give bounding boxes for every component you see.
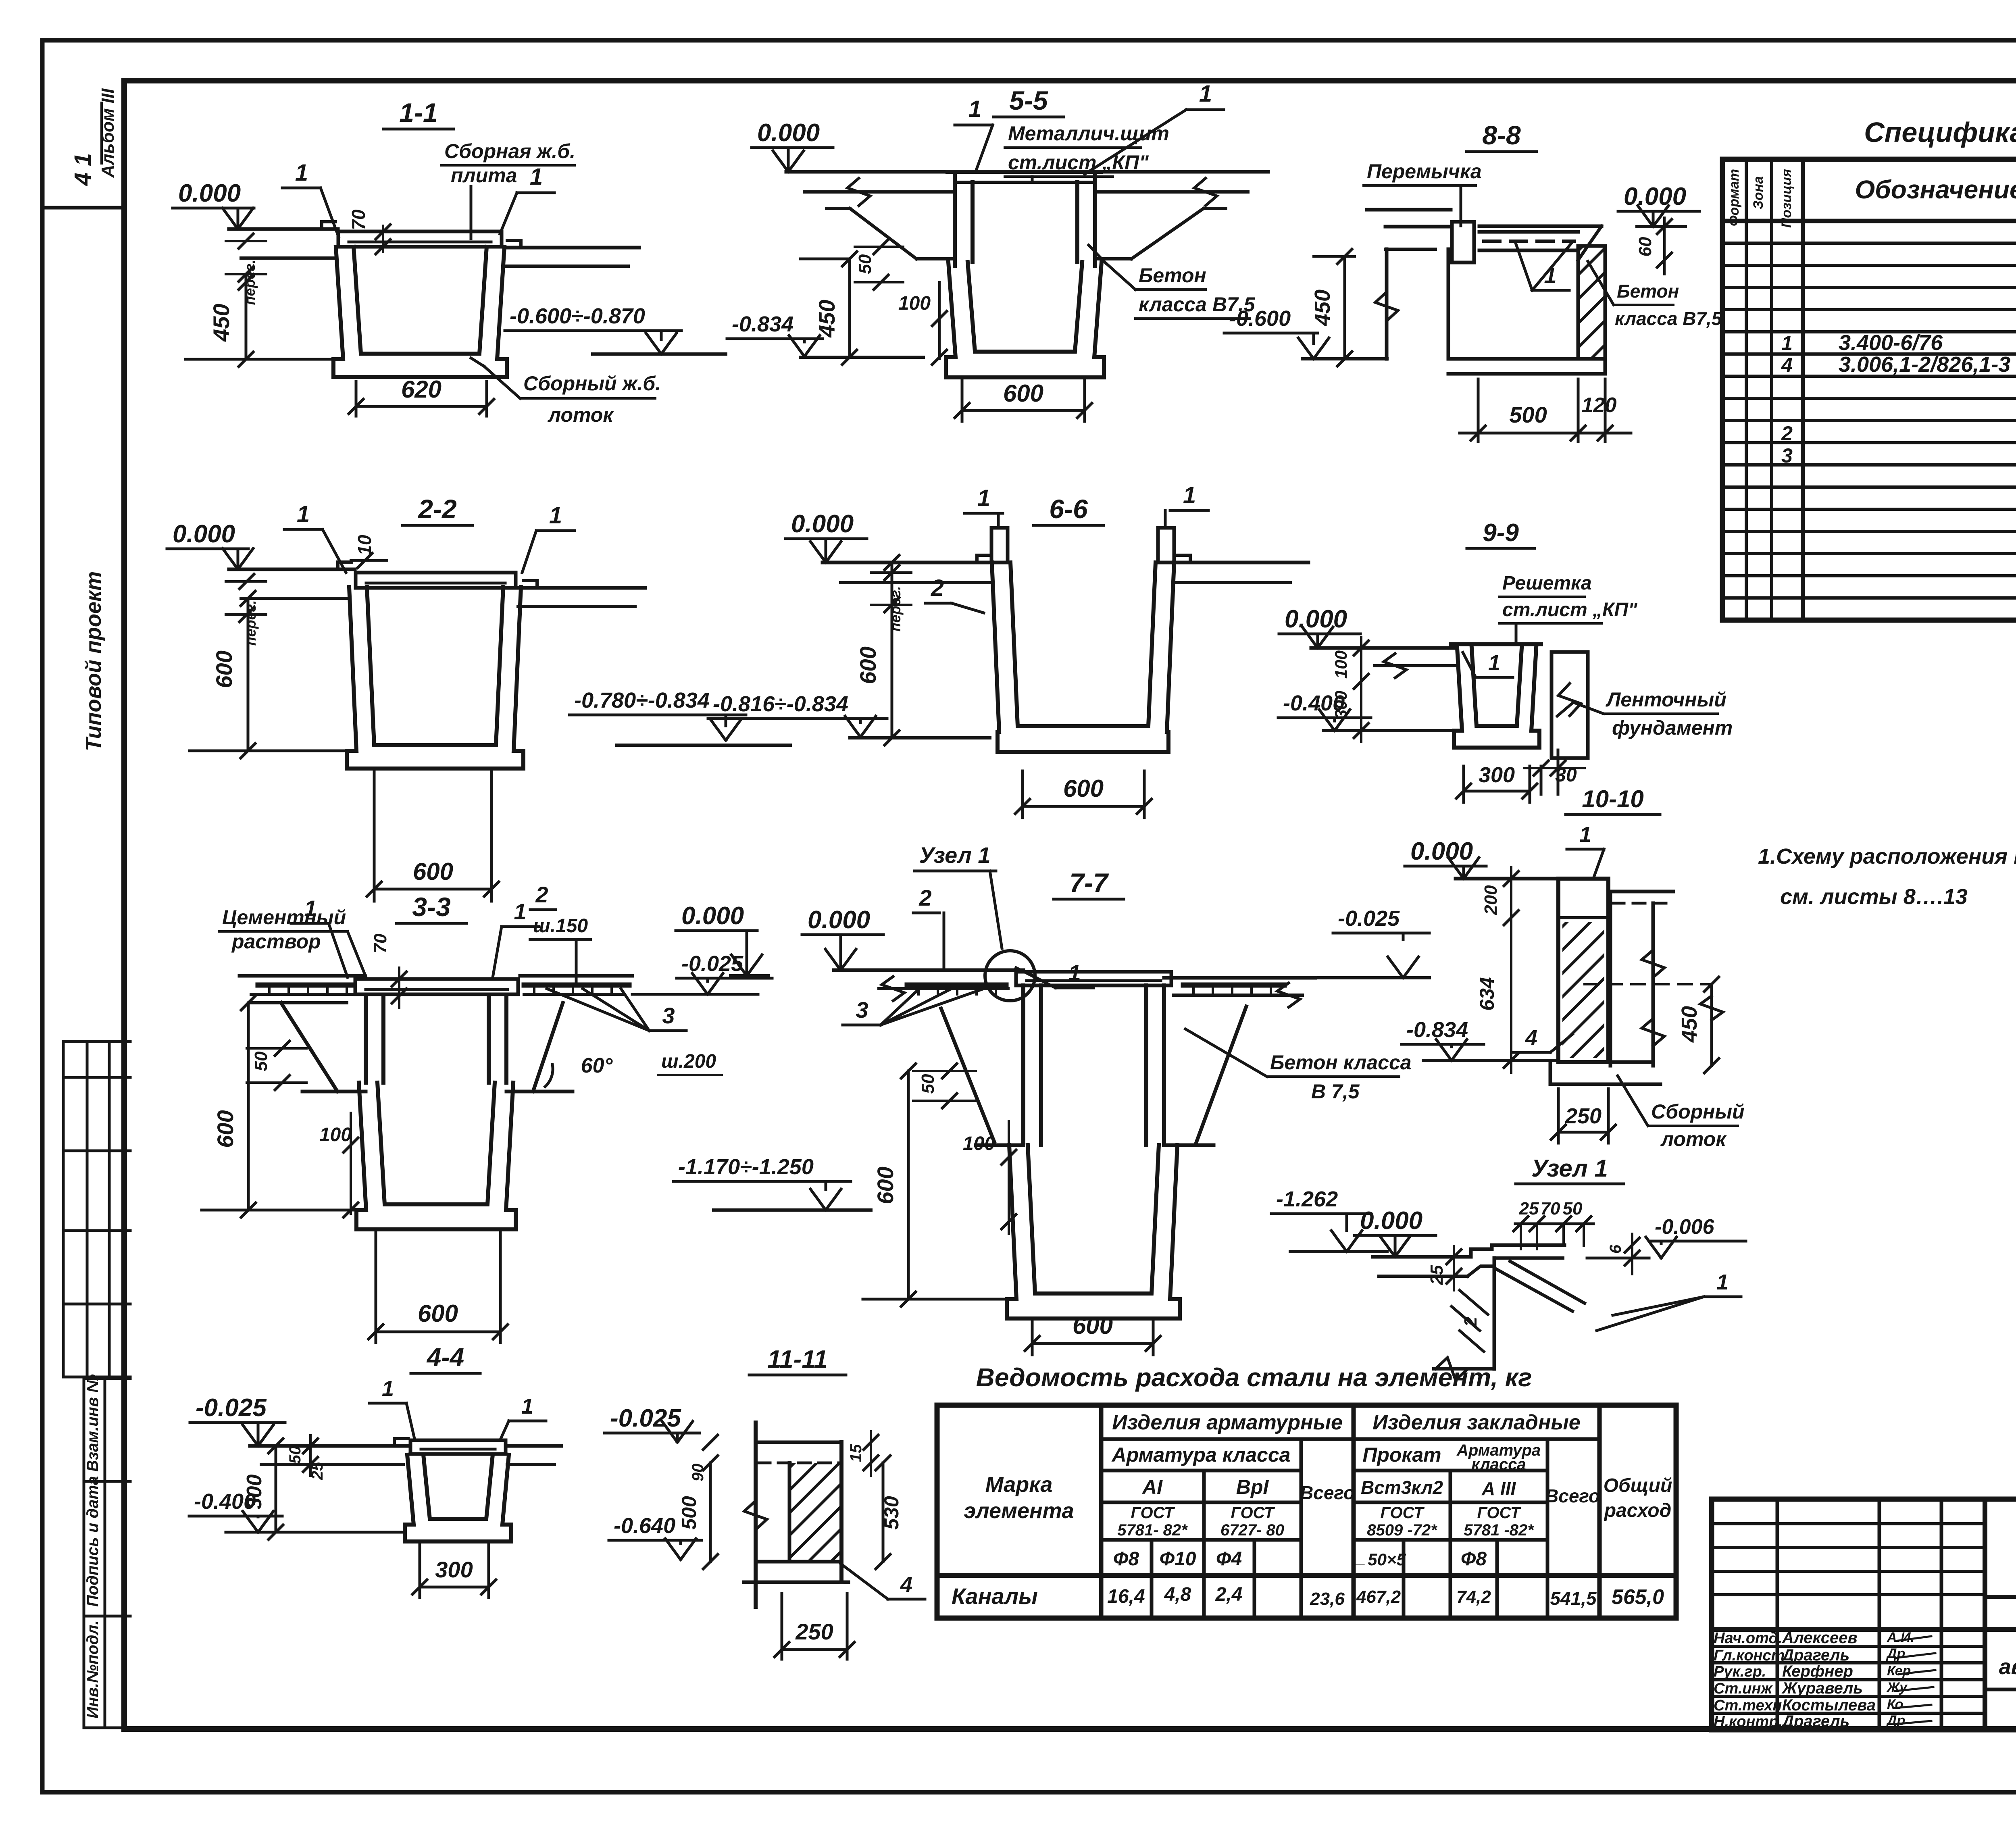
svg-text:Ст.инж: Ст.инж: [1714, 1680, 1773, 1697]
section 2-2 dim 600 vertical: [190, 750, 348, 752]
section 3-3 cover slab: [355, 979, 518, 994]
section 11-11 wall outline: [754, 1423, 758, 1607]
svg-text:Позиция: Позиция: [1779, 169, 1794, 228]
section 1-1 dim 620: [355, 381, 358, 416]
svg-text:Керфнер: Керфнер: [1782, 1662, 1853, 1680]
section 5-5 dim 450: [848, 259, 851, 357]
svg-text:6727- 80: 6727- 80: [1220, 1521, 1284, 1539]
section 8-8 grate slab dashed: [1479, 225, 1602, 228]
svg-text:-1.262: -1.262: [1276, 1187, 1338, 1211]
section 5-5 excavation slope left: [827, 207, 850, 210]
svg-text:-0.780÷-0.834: -0.780÷-0.834: [574, 688, 710, 712]
svg-text:2: 2: [1461, 1316, 1481, 1327]
section 7-7 embedded plate left: [907, 983, 1006, 988]
узел 1 cover slab edge: [1471, 1245, 1564, 1257]
svg-text:Формат: Формат: [1727, 169, 1742, 226]
svg-text:-0.025: -0.025: [681, 952, 744, 976]
svg-text:600: 600: [413, 858, 453, 885]
section 3-3 dim 600 bottom: [375, 1232, 377, 1343]
svg-text:5781- 82*: 5781- 82*: [1117, 1521, 1188, 1539]
svg-text:100: 100: [898, 293, 931, 314]
svg-text:Ф10: Ф10: [1160, 1548, 1196, 1570]
svg-text:Алексеев: Алексеев: [1782, 1629, 1858, 1647]
svg-text:Узел 1: Узел 1: [919, 842, 991, 868]
svg-text:300: 300: [1479, 763, 1515, 787]
section 7-7 cover slab: [1016, 972, 1171, 985]
section 4-4 trough: [405, 1455, 511, 1541]
section 7-7 floor slab left: [834, 969, 1023, 972]
section 2-2 dim 600 bottom: [373, 771, 376, 901]
svg-text:3: 3: [1781, 444, 1793, 467]
section 5-5 leader from label to shield: [1031, 177, 1034, 182]
svg-text:ГОСТ: ГОСТ: [1381, 1504, 1425, 1522]
svg-text:Взам.инв №: Взам.инв №: [84, 1374, 102, 1472]
svg-text:Подпись и дата: Подпись и дата: [84, 1476, 102, 1607]
section 11-11 dim 500 90: [709, 1463, 712, 1562]
section 11-11 hatched core: [788, 1463, 791, 1562]
section 5-5 trough: [946, 262, 1104, 377]
section 6-6 floor line left: [823, 561, 992, 564]
svg-text:2-2: 2-2: [417, 494, 457, 524]
svg-text:9-9: 9-9: [1483, 519, 1519, 547]
svg-text:0.000: 0.000: [791, 510, 854, 538]
svg-text:-0.600÷-0.870: -0.600÷-0.870: [510, 304, 645, 328]
svg-text:ГОСТ: ГОСТ: [1231, 1504, 1276, 1522]
svg-text:-0.600: -0.600: [1229, 306, 1291, 331]
title block designation row line: [1985, 1595, 2016, 1599]
svg-text:450: 450: [814, 300, 839, 337]
svg-text:1: 1: [549, 502, 562, 529]
svg-text:50: 50: [1563, 1199, 1583, 1219]
svg-text:8509 -72*: 8509 -72*: [1367, 1521, 1438, 1539]
svg-text:450: 450: [208, 304, 234, 342]
svg-text:70: 70: [371, 933, 390, 953]
left margin cell Инв.№ подл.: [84, 1727, 130, 1729]
svg-text:Ф4: Ф4: [1216, 1548, 1242, 1570]
узел 1 seat hatch: [1460, 1290, 1488, 1314]
svg-text:ТП. 405-7- 4.86: ТП. 405-7- 4.86: [2014, 1541, 2016, 1579]
svg-text:Ст.техн: Ст.техн: [1714, 1697, 1782, 1714]
title block frame: [1712, 1499, 2016, 1730]
steel table grid: [937, 1405, 1676, 1618]
section 6-6 dim 600 vertical: [891, 562, 893, 738]
section 4-4 floor line left: [250, 1444, 408, 1448]
svg-text:плита: плита: [451, 164, 517, 187]
svg-text:2: 2: [918, 885, 931, 910]
section 5-5 floor line right: [1095, 170, 1268, 174]
svg-text:600: 600: [855, 646, 881, 684]
section 4-4 floor line right: [507, 1444, 561, 1448]
svg-text:4 1: 4 1: [70, 153, 96, 186]
svg-text:Вст3кл2: Вст3кл2: [1361, 1477, 1443, 1498]
svg-text:60: 60: [1635, 237, 1655, 256]
svg-text:класса: класса: [1471, 1456, 1526, 1473]
section 1-1 dim 450: [185, 358, 333, 361]
section 2-2 trough: [347, 587, 523, 769]
left margin grid table: [63, 1040, 130, 1043]
section 5-5 floor line left: [786, 170, 955, 174]
svg-text:ш.200: ш.200: [661, 1051, 716, 1072]
svg-text:-0.834: -0.834: [732, 312, 793, 336]
svg-text:1: 1: [968, 96, 981, 122]
svg-text:Костылева: Костылева: [1782, 1696, 1876, 1714]
svg-text:Нач.отд.: Нач.отд.: [1714, 1630, 1782, 1647]
svg-text:541,5: 541,5: [1550, 1588, 1597, 1609]
svg-text:2,4: 2,4: [1215, 1584, 1243, 1605]
svg-text:Типовой проект: Типовой проект: [81, 571, 106, 752]
section 1-1 trough: [333, 247, 507, 377]
section 8-8 wall hatched: [1578, 246, 1605, 359]
svg-text:0.000: 0.000: [1410, 837, 1473, 865]
svg-text:50: 50: [918, 1074, 938, 1094]
svg-text:1: 1: [1199, 81, 1212, 107]
svg-text:-0.400: -0.400: [1283, 691, 1345, 715]
section 5-5 wall left: [953, 172, 957, 266]
svg-text:0.000: 0.000: [173, 520, 235, 548]
svg-text:600: 600: [418, 1300, 458, 1327]
svg-text:-0.025: -0.025: [610, 1404, 681, 1432]
svg-text:Бетон: Бетон: [1617, 281, 1679, 302]
svg-text:Бетон класса: Бетон класса: [1270, 1051, 1412, 1074]
section 2-2 floor line left: [229, 568, 355, 571]
svg-text:ГОСТ: ГОСТ: [1131, 1504, 1176, 1522]
svg-text:Арматура класса: Арматура класса: [1111, 1443, 1291, 1466]
svg-text:15: 15: [847, 1444, 865, 1462]
svg-text:-0.816÷-0.834: -0.816÷-0.834: [713, 692, 848, 716]
section 7-7 dim 600 bottom: [1031, 1322, 1034, 1355]
svg-text:Сборная ж.б.: Сборная ж.б.: [444, 140, 575, 162]
section 6-6 dim 600 bottom: [1021, 771, 1024, 818]
svg-text:565,0: 565,0: [1612, 1585, 1664, 1609]
svg-text:Сборный: Сборный: [1651, 1100, 1745, 1123]
section 7-7 channel walls: [1021, 985, 1025, 1145]
svg-text:1: 1: [1716, 1270, 1729, 1294]
svg-text:А III: А III: [1481, 1478, 1516, 1499]
svg-text:1: 1: [1579, 823, 1591, 847]
svg-text:1: 1: [297, 501, 310, 527]
svg-text:Сборный ж.б.: Сборный ж.б.: [523, 372, 661, 395]
svg-text:Ведомость расхода стали на эле: Ведомость расхода стали на элемент, кг: [976, 1363, 1532, 1392]
svg-text:1: 1: [295, 160, 308, 186]
svg-text:лоток: лоток: [548, 404, 614, 426]
svg-text:100: 100: [319, 1124, 352, 1146]
svg-text:Зона: Зона: [1751, 176, 1766, 209]
svg-text:Прокат: Прокат: [1362, 1443, 1441, 1466]
svg-text:600: 600: [212, 1110, 238, 1148]
spec table grid: [1722, 159, 2016, 620]
svg-text:1: 1: [1781, 332, 1793, 354]
svg-text:300: 300: [435, 1557, 473, 1582]
svg-text:0.000: 0.000: [757, 119, 820, 147]
section 7-7 excavation slope left: [941, 1008, 994, 1142]
svg-text:1: 1: [530, 164, 543, 190]
section 9-9 dim 300 bottom: [1462, 766, 1465, 802]
svg-text:3: 3: [856, 997, 868, 1023]
section 10-10 bottom slab: [1558, 1060, 1653, 1064]
svg-text:600: 600: [1063, 775, 1104, 802]
section 3-3 embedded plate right: [524, 983, 629, 988]
section 1-1 floor line right: [504, 246, 639, 250]
svg-text:Каналы: Каналы: [952, 1583, 1038, 1609]
svg-text:25: 25: [308, 1462, 326, 1480]
section 2-2 cover slab: [356, 573, 516, 588]
svg-text:530: 530: [880, 1496, 903, 1530]
svg-text:Цементный: Цементный: [222, 906, 346, 929]
section 7-7 excavation slope right: [1196, 1006, 1246, 1144]
svg-text:Металлич.щит: Металлич.щит: [1008, 122, 1169, 145]
svg-text:Н.контр.: Н.контр.: [1714, 1713, 1783, 1730]
svg-text:1: 1: [382, 1377, 394, 1401]
section 3-3 floor slab right: [520, 974, 632, 978]
svg-text:11-11: 11-11: [767, 1346, 827, 1373]
svg-text:23,6: 23,6: [1310, 1589, 1345, 1609]
section 1-1 cover slab: [338, 231, 502, 247]
svg-text:0.000: 0.000: [1624, 183, 1686, 210]
section 8-8 lintel: [1452, 222, 1474, 262]
svg-text:Инв.№подл.: Инв.№подл.: [84, 1620, 102, 1718]
section 10-10 floor line: [1456, 877, 1560, 881]
svg-text:4: 4: [1525, 1026, 1537, 1050]
svg-text:120: 120: [1582, 394, 1617, 417]
section 2-2 floor line right: [518, 586, 645, 590]
svg-text:ш.150: ш.150: [533, 915, 588, 937]
svg-text:300: 300: [243, 1475, 266, 1510]
svg-text:Кер: Кер: [1887, 1663, 1911, 1679]
svg-text:см. листы 8….13: см. листы 8….13: [1780, 885, 1968, 909]
svg-text:50: 50: [286, 1446, 304, 1464]
svg-text:Спецификация каналов: Спецификация каналов: [1864, 117, 2016, 148]
svg-text:10-10: 10-10: [1582, 785, 1643, 812]
svg-text:Ф8: Ф8: [1113, 1548, 1139, 1570]
svg-text:В 7,5: В 7,5: [1311, 1080, 1360, 1103]
svg-text:70: 70: [348, 209, 369, 230]
section 5-5 wall right: [1093, 172, 1097, 266]
svg-text:Ленточный: Ленточный: [1606, 688, 1727, 711]
svg-text:0.000: 0.000: [681, 902, 744, 930]
svg-text:Всего: Всего: [1300, 1482, 1355, 1503]
svg-text:0.000: 0.000: [1285, 605, 1347, 633]
svg-text:∟50×5: ∟50×5: [1351, 1550, 1406, 1569]
section 4-4 dim 300 bottom: [419, 1544, 421, 1598]
svg-text:100: 100: [1331, 650, 1350, 679]
svg-text:500: 500: [678, 1496, 700, 1530]
svg-text:1.Схему расположения каналов,: 1.Схему расположения каналов, перекрытия…: [1758, 844, 2016, 869]
svg-text:6: 6: [1607, 1244, 1624, 1254]
svg-text:25: 25: [1427, 1265, 1447, 1285]
left margin cell Подпись и дата: [84, 1615, 130, 1618]
svg-text:Ко: Ко: [1887, 1697, 1903, 1712]
svg-text:1: 1: [1488, 651, 1500, 675]
section 3-3 excavation slope right: [533, 1003, 563, 1091]
svg-text:74,2: 74,2: [1456, 1587, 1491, 1607]
svg-text:Общий: Общий: [1604, 1475, 1672, 1496]
section 3-3 dim 600 vertical: [247, 1003, 250, 1210]
section 6-6 formwork stub left: [991, 528, 1008, 562]
section 9-9 grate line: [1451, 642, 1541, 646]
svg-text:600: 600: [211, 650, 237, 688]
svg-text:перег.: перег.: [242, 600, 259, 646]
svg-text:634: 634: [1476, 977, 1498, 1010]
section 10-10 dim 450: [1585, 983, 1712, 985]
title block upper rows left: [1712, 1522, 1985, 1525]
section 9-9 floor line left: [1311, 646, 1457, 650]
svg-text:ВрI: ВрI: [1236, 1476, 1269, 1498]
section 6-6 formwork stub right: [1158, 528, 1174, 562]
узел 1 bottom line: [1434, 1367, 1494, 1371]
svg-text:расход: расход: [1604, 1500, 1672, 1521]
section 3-3 channel walls: [364, 996, 368, 1083]
left margin cell Взам. инв. №: [84, 1377, 130, 1380]
section 1-1 leader to cover slab: [470, 186, 473, 239]
section 4-4 cover slab: [410, 1440, 506, 1454]
svg-text:500: 500: [1509, 402, 1547, 427]
svg-text:100: 100: [963, 1133, 995, 1154]
svg-text:3: 3: [662, 1003, 675, 1028]
section 8-8 dim 450: [1343, 256, 1346, 359]
svg-text:автомобильных шин: автомобильных шин: [1999, 1655, 2016, 1679]
svg-text:Изделия арматурные: Изделия арматурные: [1112, 1411, 1343, 1434]
svg-text:0.000: 0.000: [808, 906, 870, 934]
svg-text:50: 50: [855, 254, 875, 274]
svg-text:ст.лист „КП": ст.лист „КП": [1502, 599, 1638, 621]
section 11-11 bottom slab: [756, 1560, 841, 1564]
svg-text:Жу: Жу: [1886, 1680, 1908, 1695]
svg-text:Марка: Марка: [985, 1473, 1053, 1497]
left margin cell Альбом: [42, 206, 124, 210]
svg-text:Изделия закладные: Изделия закладные: [1372, 1411, 1580, 1434]
section 8-8 channel walls left: [1385, 249, 1389, 359]
svg-text:3-3: 3-3: [412, 892, 450, 922]
svg-text:Перемычка: Перемычка: [1367, 160, 1482, 183]
section 8-8 bottom slab: [1448, 357, 1605, 361]
section 10-10 wall: [1558, 879, 1608, 1062]
svg-text:1: 1: [977, 485, 990, 511]
svg-text:-0.640: -0.640: [614, 1514, 675, 1538]
svg-text:50: 50: [251, 1051, 271, 1071]
svg-text:лоток: лоток: [1660, 1128, 1727, 1150]
section 11-11 dim 250: [781, 1593, 783, 1659]
section 3-3 excavation slope left: [281, 1003, 337, 1091]
section 10-10 precast tray right: [1610, 890, 1673, 894]
svg-text:элемента: элемента: [964, 1499, 1074, 1523]
svg-text:Решетка: Решетка: [1502, 573, 1592, 594]
svg-text:Бетон: Бетон: [1139, 264, 1206, 287]
svg-text:3.006,1-2/826,1-3: 3.006,1-2/826,1-3: [1839, 352, 2010, 377]
svg-text:-0.025: -0.025: [1338, 906, 1400, 931]
section 7-7 callout circle: [985, 951, 1035, 1001]
svg-text:467,2: 467,2: [1356, 1587, 1401, 1607]
section 9-9 trough: [1454, 648, 1539, 748]
svg-text:А.И.: А.И.: [1887, 1630, 1914, 1645]
svg-text:0.000: 0.000: [178, 179, 241, 207]
svg-text:6-6: 6-6: [1049, 494, 1088, 524]
svg-text:1: 1: [1068, 960, 1081, 985]
svg-text:Драгель: Драгель: [1781, 1646, 1849, 1664]
svg-text:4,8: 4,8: [1164, 1584, 1191, 1605]
svg-text:200: 200: [1481, 885, 1501, 915]
section 7-7 floor slab right: [1164, 976, 1315, 980]
svg-text:60°: 60°: [581, 1054, 613, 1077]
svg-text:250: 250: [795, 1619, 833, 1644]
узел 1 sloped plate: [1497, 1269, 1572, 1311]
svg-text:-0.006: -0.006: [1655, 1215, 1715, 1239]
svg-text:2: 2: [931, 575, 944, 601]
section 7-7 trough: [1007, 1145, 1180, 1319]
section 7-7 dim 600 vertical: [907, 1071, 910, 1299]
svg-text:1-1: 1-1: [399, 98, 437, 127]
svg-text:1: 1: [1183, 482, 1196, 508]
svg-text:1: 1: [521, 1394, 533, 1418]
section 9-9 strip foundation: [1552, 650, 1588, 654]
section 4-4 dim 300 50 25: [275, 1446, 277, 1532]
section 7-7 embedded plate right: [1183, 983, 1284, 988]
svg-text:ГОСТ: ГОСТ: [1477, 1504, 1522, 1522]
svg-text:4: 4: [1781, 354, 1793, 376]
svg-text:-1.170÷-1.250: -1.170÷-1.250: [678, 1155, 814, 1179]
section 6-6 floor line right: [1174, 561, 1308, 564]
svg-text:Всего: Всего: [1545, 1485, 1600, 1506]
svg-text:-0.025: -0.025: [196, 1394, 267, 1422]
узел 1 floor lines: [1373, 1255, 1471, 1259]
section 3-3 embedded plate left: [258, 983, 354, 988]
title block signature columns: [1776, 1499, 1779, 1730]
svg-text:Рук.гр.: Рук.гр.: [1714, 1663, 1766, 1680]
svg-text:600: 600: [873, 1166, 898, 1204]
section 8-8 dim 500 and 120: [1477, 379, 1480, 442]
svg-text:1: 1: [304, 896, 317, 921]
svg-text:16,4: 16,4: [1107, 1586, 1145, 1607]
section 5-5 metal shield cover: [948, 170, 1101, 174]
svg-text:Др: Др: [1886, 1713, 1905, 1728]
svg-text:600: 600: [1003, 380, 1043, 407]
svg-text:4-4: 4-4: [426, 1343, 464, 1372]
svg-text:90: 90: [689, 1464, 707, 1482]
svg-text:Ф8: Ф8: [1461, 1548, 1487, 1570]
section 1-1 floor line left: [229, 227, 338, 231]
section 8-8 floor slab left: [1385, 225, 1451, 229]
svg-text:2: 2: [535, 882, 548, 907]
section 3-3 trough: [356, 1083, 516, 1229]
svg-text:фундамент: фундамент: [1612, 717, 1733, 739]
section 3-3 floor slab left: [240, 974, 365, 978]
svg-text:Узел 1: Узел 1: [1531, 1155, 1608, 1182]
svg-text:2: 2: [1781, 422, 1793, 445]
svg-text:450: 450: [1677, 1006, 1702, 1043]
svg-text:3.400-6/76: 3.400-6/76: [1839, 331, 1943, 355]
svg-text:600: 600: [1073, 1312, 1113, 1339]
section 5-5 excavation slope right: [1204, 207, 1226, 210]
section 5-5 dim 600: [961, 379, 964, 421]
section 6-6 trough: [992, 562, 1174, 752]
svg-text:250: 250: [1565, 1104, 1602, 1128]
svg-text:0.000: 0.000: [1360, 1207, 1422, 1235]
svg-text:Гл.конст: Гл.конст: [1714, 1647, 1785, 1664]
title block signature rows: [1712, 1645, 1985, 1648]
svg-text:5781 -82*: 5781 -82*: [1464, 1521, 1535, 1539]
svg-text:АI: АI: [1141, 1476, 1163, 1498]
svg-text:620: 620: [401, 376, 442, 403]
svg-text:5-5: 5-5: [1009, 85, 1048, 115]
svg-text:-0.834: -0.834: [1406, 1018, 1468, 1042]
section 10-10 dim 250: [1557, 1089, 1560, 1143]
svg-text:Журавель: Журавель: [1781, 1679, 1863, 1697]
svg-text:Драгель: Драгель: [1781, 1712, 1849, 1730]
svg-text:450: 450: [1310, 290, 1335, 326]
svg-text:4: 4: [900, 1573, 912, 1597]
svg-text:1: 1: [514, 899, 526, 924]
svg-text:раствор: раствор: [231, 930, 321, 953]
svg-text:7-7: 7-7: [1069, 868, 1109, 898]
